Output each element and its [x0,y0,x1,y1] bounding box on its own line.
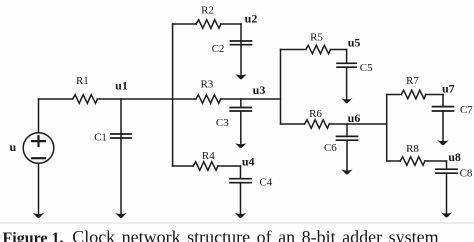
faint separator line [0,222,474,224]
wire source bottom [38,163,40,213]
svg-text:C2: C2 [212,43,225,55]
svg-text:C1: C1 [94,132,107,144]
ground C2 [235,74,246,79]
ground C7 [437,140,448,145]
node u7 [442,95,444,107]
wire branch R6 right [329,123,386,125]
resistor R6 [305,120,330,129]
svg-text:C7: C7 [460,104,473,116]
node u8 [446,161,448,169]
node u1 [120,99,122,134]
wire branch R7 right [426,94,443,96]
wire vertical branch 3 [386,95,388,162]
wire branch R8 left [387,160,401,162]
capacitor C1 [120,134,122,214]
wire branch R2 right [221,23,241,25]
ground C3 [235,143,246,148]
resistor R8 [400,157,425,166]
ground C8 [441,213,452,218]
wire vertical branch 2 [280,50,282,125]
wire branch R4 left [173,165,194,167]
svg-text:R6: R6 [309,108,322,120]
svg-text:R7: R7 [406,75,419,87]
capacitor C4 [240,183,242,214]
capacitor C3 [240,111,242,144]
svg-text:C5: C5 [360,62,373,74]
node u4 [240,166,242,179]
ground C6 [341,170,352,175]
resistor R7 [401,90,426,99]
ground C5 [341,98,352,103]
wire branch R3 right [221,98,281,100]
wire vertical branch 1 [172,24,174,166]
voltage source u [23,133,54,164]
resistor R2 [196,20,221,29]
capacitor C8 [446,173,448,213]
svg-text:R3: R3 [200,79,213,91]
svg-text:u5: u5 [348,36,361,50]
svg-text:R2: R2 [201,5,214,17]
resistor R1 [73,95,98,104]
svg-text:u4: u4 [242,155,255,169]
wire branch R8 right [425,160,447,162]
svg-text:R8: R8 [406,143,419,155]
wire branch R2 left [173,23,197,25]
wire main horizontal left [39,98,73,100]
resistor R3 [196,95,221,104]
capacitor C2 [240,41,242,75]
wire branch R4 right [218,165,241,167]
svg-text:u3: u3 [253,83,266,97]
wire branch R7 left [387,94,402,96]
svg-text:u7: u7 [442,82,455,96]
svg-text:R1: R1 [76,75,89,87]
svg-text:R5: R5 [310,31,323,43]
resistor R4 [193,162,218,171]
svg-text:R4: R4 [202,150,215,162]
capacitor C7 [442,111,444,141]
svg-text:u6: u6 [348,111,361,125]
capacitor C5 [346,67,348,99]
resistor R5 [306,45,331,54]
svg-text:C6: C6 [324,142,337,154]
svg-text:C8: C8 [460,168,473,180]
node u5 [346,50,348,64]
svg-text:C3: C3 [216,117,229,129]
svg-text:u2: u2 [245,12,258,26]
wire branch R5 right [331,49,347,51]
node u3 [240,99,242,108]
wire source top [38,99,40,133]
svg-text:Figure 1.Clock network structu: Figure 1.Clock network structure of an 8… [3,227,439,242]
capacitor C6 [346,140,348,170]
node u2 [240,24,242,41]
wire main horizontal mid [97,98,195,100]
wire branch R5 left [281,49,306,51]
svg-text:u8: u8 [448,150,461,164]
wire branch R6 left [281,123,305,125]
svg-text:u: u [10,140,17,154]
svg-text:u1: u1 [115,79,128,93]
node u6 [346,124,348,136]
ground C1 [115,213,126,218]
svg-text:C4: C4 [259,176,272,188]
ground C4 [235,213,246,218]
ground source [33,213,44,218]
